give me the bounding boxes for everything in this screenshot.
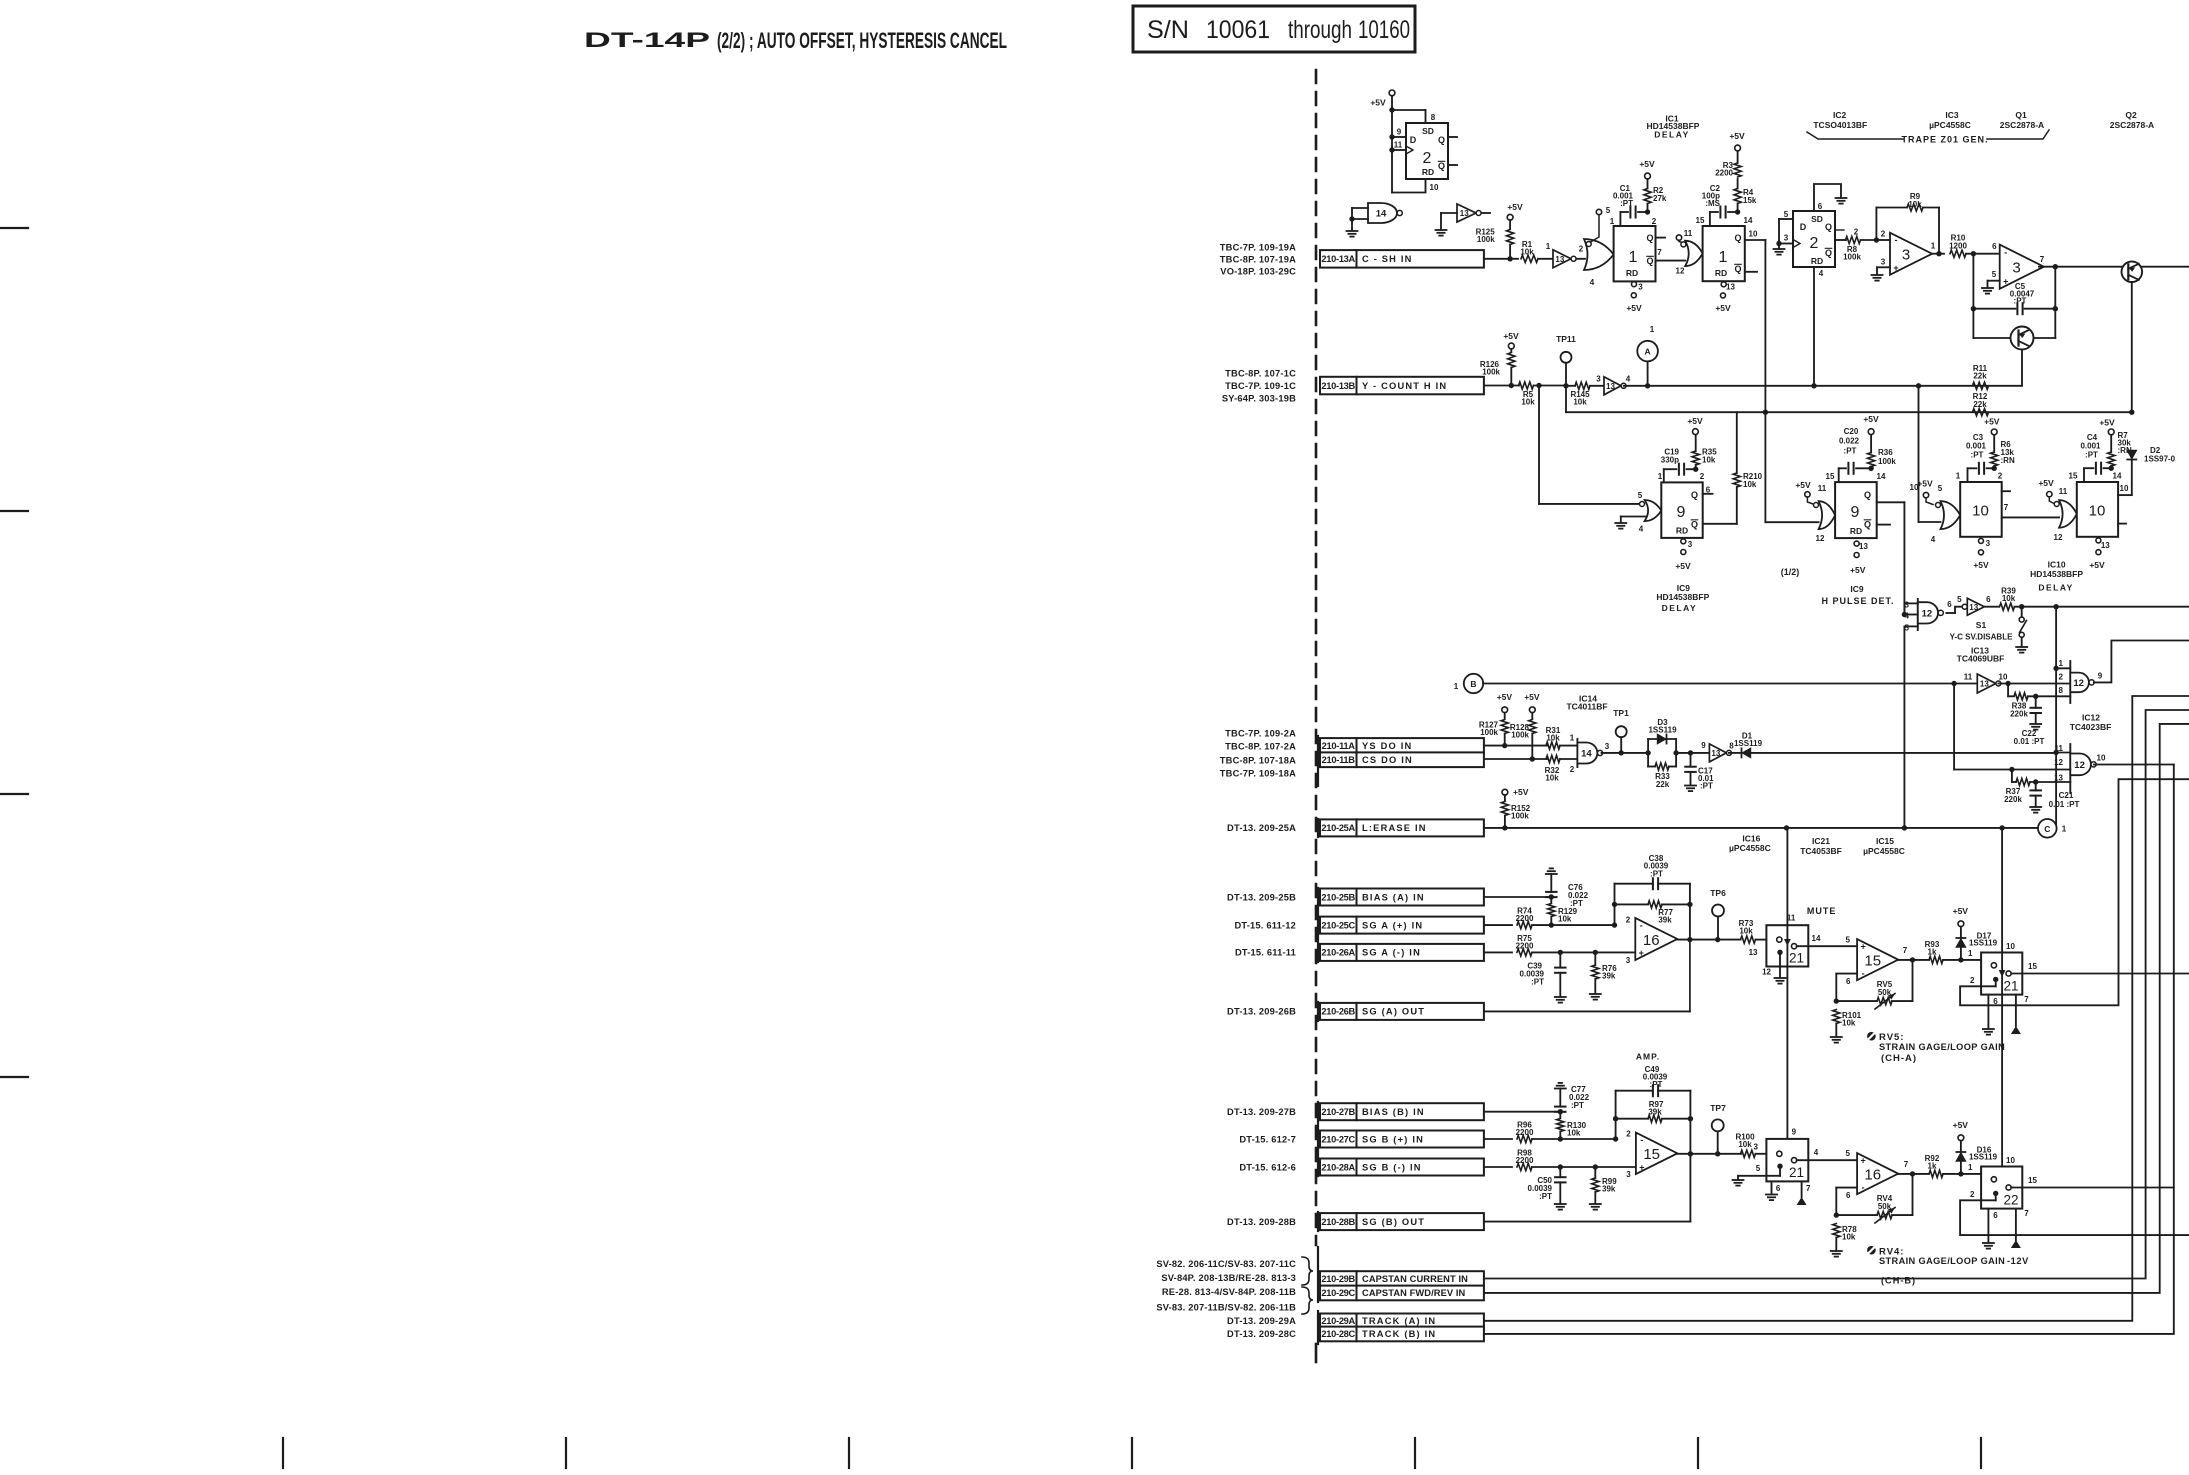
left margin tick 1 (0, 227, 28, 229)
pin 4 label or gate IC1a (1590, 278, 1595, 287)
svg-text:7: 7 (2040, 255, 2045, 264)
inverter IC13a (1946, 595, 1999, 615)
svg-text:DT-15. 611-12: DT-15. 611-12 (1234, 920, 1296, 930)
monostable IC9b box 9 (1835, 482, 1877, 538)
connector 210-29A TRACK (A) IN (1320, 1314, 1484, 1329)
svg-text:C20: C20 (1844, 427, 1859, 436)
resistor R100 10k (1735, 1132, 1766, 1157)
capacitor C1 0.001 (1613, 184, 1650, 226)
svg-text:+5V: +5V (1687, 416, 1703, 426)
svg-text:SV-84P. 208-13B/RE-28. 813-3: SV-84P. 208-13B/RE-28. 813-3 (1161, 1273, 1296, 1283)
screw RV4 annotation (1867, 1246, 2005, 1285)
ground or gate IC9a (1615, 517, 1646, 529)
nand gate IC14 (1570, 733, 1603, 774)
resistor R97 39k feedback (1616, 1100, 1691, 1122)
svg-text:4: 4 (1931, 535, 1936, 544)
pin 7 wire IC10a to or gate IC10b (2002, 503, 2059, 518)
svg-text:39k: 39k (1602, 1184, 1616, 1193)
switch S1 Y-C SV.DISABLE (1950, 607, 2028, 653)
svg-text:2: 2 (1881, 229, 1886, 238)
left label SV-84P 208-13B/RE-28 813-3 (1161, 1273, 1296, 1283)
svg-text:TP6: TP6 (1710, 888, 1726, 898)
svg-text:0.022: 0.022 (1839, 437, 1860, 446)
svg-text:6: 6 (1993, 997, 1998, 1006)
svg-text:12: 12 (1816, 534, 1825, 543)
bottom margin tick 6 (1697, 1438, 1699, 1468)
svg-text::RN: :RN (2001, 456, 2015, 465)
resistor R125 100k (1476, 227, 1514, 258)
svg-text:0.001: 0.001 (1966, 442, 1987, 451)
resistor R130 10k (1557, 1112, 1587, 1142)
svg-text:2: 2 (1970, 1190, 1975, 1199)
svg-text:DT-13. 209-26B: DT-13. 209-26B (1227, 1007, 1296, 1017)
svg-text:2: 2 (1626, 1129, 1631, 1138)
wire SG A OUT loop (1484, 940, 1690, 1012)
svg-text:210-25B: 210-25B (1321, 892, 1355, 902)
switch box 21 mute A (1766, 925, 1808, 966)
svg-text:15: 15 (1864, 953, 1881, 970)
svg-text:TRACK (A) IN: TRACK (A) IN (1362, 1316, 1436, 1326)
capacitor C39 0.0039 (1520, 952, 1566, 996)
svg-text::PT: :PT (1539, 1192, 1552, 1201)
svg-text:5: 5 (1938, 484, 1943, 493)
bottom margin tick 7 (1980, 1438, 1982, 1468)
svg-text:+5V: +5V (1370, 98, 1386, 108)
svg-text:1: 1 (1629, 249, 1638, 266)
svg-text:22: 22 (2003, 1192, 2018, 1207)
bottom margin tick 3 (848, 1438, 850, 1468)
svg-text:100k: 100k (1878, 457, 1896, 466)
svg-text:BIAS (B) IN: BIAS (B) IN (1362, 1107, 1425, 1117)
resistor R126 100k (1480, 353, 1515, 389)
connector 210-13A C - SH IN (1320, 250, 1484, 268)
svg-text:1: 1 (1610, 217, 1615, 226)
svg-text:H PULSE DET.: H PULSE DET. (1821, 596, 1894, 606)
svg-text:15: 15 (2069, 471, 2078, 480)
svg-text::PT: :PT (1700, 781, 1713, 790)
svg-text:13: 13 (1711, 749, 1720, 758)
+5V pin 11 or gate IC1b (1676, 229, 1692, 243)
svg-text:3: 3 (1626, 956, 1631, 965)
svg-text:10k: 10k (1521, 397, 1535, 406)
ground op-amp IC3a plus input (1872, 267, 1891, 280)
resistor R37 220k (2004, 770, 2070, 804)
resistor R4 15k (1734, 179, 1757, 212)
svg-text:Q: Q (1864, 520, 1871, 530)
label IC9 H PULSE DET (1821, 584, 1894, 606)
svg-text:3: 3 (1902, 247, 1910, 264)
ground R76 (1590, 994, 1601, 1000)
svg-text:1: 1 (1546, 242, 1551, 251)
svg-text:SD: SD (1811, 214, 1823, 224)
svg-text:+: + (1639, 1162, 1644, 1172)
+5V terminal R127 (1497, 692, 1513, 719)
wire CAPSTAN FWD/REV bus (1484, 724, 2189, 1293)
pin 13 terminals IC9a (1675, 539, 1692, 571)
svg-text:2200: 2200 (1715, 168, 1733, 177)
connector 210-13B Y - COUNT H IN (1320, 377, 1484, 395)
svg-text:Q: Q (1691, 490, 1698, 500)
board boundary dashed line (1315, 70, 1318, 1245)
svg-text:1: 1 (1570, 733, 1575, 742)
label MUTE (1807, 906, 1837, 916)
svg-text:14: 14 (1376, 209, 1387, 220)
wire IC13b out to nand IC12a pin2 (1998, 681, 2070, 686)
left label VO-18P 103-29C (1220, 266, 1296, 276)
svg-text:22k: 22k (1656, 780, 1670, 789)
svg-text:11: 11 (1684, 229, 1693, 238)
svg-text:39k: 39k (1602, 971, 1616, 980)
inverter IC13c (1701, 741, 1734, 762)
pin 10 wire IC10b Q (2118, 412, 2132, 495)
svg-text:1: 1 (1931, 242, 1936, 251)
svg-text:Q1: Q1 (2015, 110, 2027, 120)
svg-text:TP11: TP11 (1556, 334, 1576, 344)
svg-text:+5V: +5V (1953, 906, 1969, 916)
ground IC2b pin3 (1774, 249, 1785, 255)
svg-text:210-29C: 210-29C (1321, 1288, 1355, 1298)
wire CAPSTAN CURRENT bus (1484, 710, 2189, 1279)
svg-text:13: 13 (1749, 948, 1758, 957)
svg-text:11: 11 (1818, 484, 1827, 493)
title DT-14P (584, 29, 710, 52)
label IC10 HD14538BFP DELAY (2030, 560, 2083, 593)
svg-text:+5V: +5V (1729, 131, 1745, 141)
svg-text:12: 12 (1762, 967, 1771, 976)
svg-text::MS: :MS (1705, 199, 1720, 208)
wire nand IC12a output (2094, 641, 2189, 683)
svg-text:210-25A: 210-25A (1321, 823, 1355, 833)
svg-text:10k: 10k (1702, 455, 1716, 464)
svg-text:1SS119: 1SS119 (1969, 938, 1998, 947)
ground C21 (2030, 807, 2041, 813)
svg-text::PT: :PT (1650, 1080, 1663, 1089)
capacitor C2 100p (1702, 184, 1741, 226)
svg-text:2SC2878-A: 2SC2878-A (2110, 120, 2154, 130)
+5V pin 5 or gate IC10a (1917, 479, 1933, 505)
svg-text:SG B (-) IN: SG B (-) IN (1362, 1162, 1422, 1172)
resistor R38 220k (2008, 684, 2070, 719)
svg-text:DT-15. 611-11: DT-15. 611-11 (1235, 948, 1296, 958)
svg-text:10: 10 (2006, 1156, 2015, 1165)
svg-text:1: 1 (1968, 949, 1973, 958)
vertical net R39 to C line (2053, 607, 2058, 828)
svg-text:15: 15 (1643, 1146, 1660, 1163)
svg-text:1SS119: 1SS119 (1969, 1152, 1998, 1161)
svg-text:(CH-B): (CH-B) (1881, 1275, 1916, 1285)
resistor R128 100k (1510, 720, 1536, 762)
wire 13B to R5 (1484, 385, 1519, 387)
svg-text:10k: 10k (1743, 480, 1757, 489)
svg-text:TP7: TP7 (1710, 1103, 1726, 1113)
wire R11 rail (1624, 383, 2022, 388)
wire R11 rail branch to or gate IC10a (1919, 386, 1941, 522)
left label DT-13 209-25B (1227, 892, 1296, 902)
svg-text:+5V: +5V (1524, 692, 1540, 702)
svg-text:1k: 1k (1928, 947, 1937, 956)
svg-text:10: 10 (1999, 672, 2008, 681)
pin labels box 21 mute B (1754, 1128, 1819, 1193)
inverter 13 spare (1441, 204, 1490, 229)
flip-flop IC2a box 2 (1406, 123, 1448, 179)
wire SG B OUT loop (1484, 1154, 1691, 1222)
svg-text:7: 7 (1657, 248, 1662, 257)
svg-text:10k: 10k (1546, 733, 1560, 742)
svg-text:9: 9 (1792, 1128, 1797, 1137)
ground C39 (1555, 997, 1566, 1003)
wire box21A to op-amp IC15a (1797, 945, 1857, 947)
transistor Q1 (1973, 309, 2055, 386)
label AMP (1636, 1052, 1660, 1062)
brace upper (1302, 1257, 1313, 1285)
left label DT-13 209-28B (1227, 1217, 1296, 1227)
pin 7 -12V box 21 B (1797, 1181, 1807, 1205)
switch box 21 mute B (1766, 1139, 1808, 1182)
svg-text:10k: 10k (1739, 926, 1753, 935)
title subtitle (717, 28, 1007, 53)
label Q2 2SC2878-A (2110, 110, 2154, 130)
svg-text:210-25C: 210-25C (1321, 920, 1355, 930)
svg-text:1: 1 (1968, 1163, 1973, 1172)
bottom margin tick 5 (1414, 1438, 1416, 1468)
svg-text:+: + (1639, 948, 1644, 958)
svg-text:220k: 220k (2010, 709, 2028, 718)
svg-text:2200: 2200 (1516, 1128, 1534, 1137)
connector 210-28B SG (B) OUT (1320, 1213, 1484, 1230)
svg-text:Q: Q (1734, 264, 1741, 274)
op-amp IC16a (1626, 916, 1678, 965)
svg-text:-: - (2004, 247, 2007, 257)
svg-text:STRAIN GAGE/LOOP GAIN: STRAIN GAGE/LOOP GAIN (1879, 1042, 2005, 1052)
svg-text:D: D (1410, 135, 1417, 145)
svg-text:11: 11 (2059, 487, 2068, 496)
svg-text:RD: RD (1626, 268, 1638, 278)
svg-text:RD: RD (1850, 526, 1862, 536)
svg-text:C - SH IN: C - SH IN (1362, 254, 1413, 264)
wire C-SH to R1 (1484, 256, 1518, 261)
wire IC2b pins 5 3 (1776, 210, 1793, 248)
svg-text:16: 16 (1643, 932, 1660, 949)
svg-text:DT-15. 612-6: DT-15. 612-6 (1239, 1162, 1296, 1172)
svg-text:12: 12 (2054, 758, 2063, 767)
svg-text:210-27C: 210-27C (1321, 1134, 1355, 1144)
svg-text:6: 6 (1776, 1184, 1781, 1193)
pin 6 ground box 21 second A (1983, 995, 1998, 1035)
svg-text:DT-13. 209-25A: DT-13. 209-25A (1227, 823, 1296, 833)
svg-text:9: 9 (1677, 504, 1686, 521)
svg-text:STRAIN GAGE/LOOP GAIN: STRAIN GAGE/LOOP GAIN (1879, 1256, 2005, 1266)
svg-text:13: 13 (1980, 680, 1989, 689)
resistor R77 39k feedback (1615, 901, 1690, 925)
svg-text:3: 3 (1754, 1143, 1759, 1152)
svg-text:-: - (1640, 1135, 1643, 1145)
svg-text:A: A (1645, 347, 1651, 357)
switch contacts box 21 mute A (1777, 937, 1797, 977)
svg-text:3: 3 (2012, 260, 2020, 277)
left label TBC-8P 107-2A (1225, 741, 1296, 751)
wire R39 line to right edge (2056, 606, 2189, 608)
svg-text:Y - COUNT H IN: Y - COUNT H IN (1362, 381, 1447, 391)
svg-text:TBC-7P. 109-2A: TBC-7P. 109-2A (1225, 728, 1296, 738)
svg-text:210-27B: 210-27B (1321, 1107, 1355, 1117)
wire R10 to op-amp IC3b (1973, 242, 1999, 254)
wire branch to or gate IC9a (1539, 386, 1641, 504)
test point TP6 (1710, 888, 1726, 940)
svg-text:10: 10 (1972, 502, 1989, 519)
svg-text:+5V: +5V (1675, 561, 1691, 571)
resistor R12 22k (1973, 392, 1989, 416)
svg-text:CAPSTAN FWD/REV IN: CAPSTAN FWD/REV IN (1362, 1288, 1466, 1298)
inverter 13 C-SH (1546, 242, 1585, 268)
+5V pin 11 or gate IC10b (2038, 478, 2054, 503)
connector 210-26B SG (A) OUT (1320, 1003, 1484, 1020)
or gate IC1b input (1681, 241, 1703, 266)
capacitor C5 0.0047 loop (1971, 254, 2058, 315)
svg-text:2: 2 (1570, 765, 1575, 774)
svg-text:210-28B: 210-28B (1321, 1217, 1355, 1227)
svg-text:10k: 10k (1520, 247, 1534, 256)
svg-text:6: 6 (1992, 242, 1997, 251)
left label TBC-7P 109-2A (1225, 728, 1296, 738)
svg-text:TCSO4013BF: TCSO4013BF (1813, 120, 1867, 130)
ground R101 (1831, 1037, 1842, 1043)
svg-text:1SS119: 1SS119 (1648, 725, 1677, 734)
svg-text:C3: C3 (1973, 433, 1984, 442)
svg-text:210-26A: 210-26A (1321, 948, 1355, 958)
flip-flop IC2b box 2 (1793, 211, 1835, 267)
wire SG A plus line (1484, 924, 1512, 926)
wire TRACK B bus (1484, 765, 2174, 1334)
wire op-amp IC15a output (1898, 957, 1929, 962)
wire IC10b Qbar stub (2118, 523, 2126, 525)
wire R8 to op-amp IC3a (1876, 239, 1890, 241)
bottom margin tick 1 (282, 1438, 284, 1468)
svg-text:100k: 100k (1511, 811, 1529, 820)
resistor R73 10k (1739, 919, 1767, 943)
svg-text:CS DO IN: CS DO IN (1362, 755, 1413, 765)
+5V terminal R35 (1687, 416, 1703, 434)
ground pin 5 box 21 B (1733, 1180, 1744, 1186)
svg-text:1: 1 (1658, 472, 1663, 481)
svg-text:210-26B: 210-26B (1321, 1007, 1355, 1017)
svg-text:10: 10 (1749, 230, 1758, 239)
svg-text::PT: :PT (1531, 977, 1544, 986)
svg-text:2: 2 (1579, 244, 1584, 253)
label TRAPE Z01 GEN bracket (1807, 130, 2049, 145)
svg-text:B: B (1470, 679, 1476, 689)
svg-text:14: 14 (2113, 471, 2122, 480)
wire IC10a Q stub (2002, 490, 2010, 492)
pin 8 label FF2a (1431, 113, 1436, 122)
+5V terminal R36 (1863, 414, 1879, 434)
svg-text:DELAY: DELAY (1654, 130, 1690, 140)
nand gate 14 spare (1349, 203, 1402, 230)
svg-text:RD: RD (1811, 256, 1823, 266)
svg-text:SG (A) OUT: SG (A) OUT (1362, 1007, 1425, 1017)
svg-text:DT-13. 209-29A: DT-13. 209-29A (1227, 1316, 1296, 1326)
wire pin15 box 21 second A to right (2011, 973, 2189, 975)
diode D3 1SS119 (1648, 718, 1677, 767)
svg-text:Q: Q (1825, 222, 1832, 232)
svg-text:Q: Q (1734, 233, 1741, 243)
left label SY-64P 303-19B (1222, 393, 1296, 403)
left label DT-13 209-25A (1227, 823, 1296, 833)
svg-text:2200: 2200 (1516, 941, 1534, 950)
svg-text:(2/2) ; AUTO OFFSET, HYSTERESI: (2/2) ; AUTO OFFSET, HYSTERESIS CANCEL (717, 28, 1007, 53)
svg-text:through: through (1288, 16, 1352, 44)
left margin tick 4 (0, 1076, 28, 1078)
svg-text:1: 1 (1454, 682, 1459, 691)
svg-text:+5V: +5V (1973, 560, 1989, 570)
svg-text:5: 5 (1756, 1164, 1761, 1173)
wire D3 to inverter (1676, 750, 1709, 755)
svg-text:SG A (-) IN: SG A (-) IN (1362, 948, 1421, 958)
svg-text:1: 1 (2062, 825, 2067, 834)
left label DT-13 209-29A (1227, 1316, 1296, 1326)
svg-text:10k: 10k (1738, 1140, 1752, 1149)
svg-text:210-13A: 210-13A (1321, 254, 1355, 264)
svg-text:6: 6 (1947, 600, 1952, 609)
svg-text:HD14538BFP: HD14538BFP (1656, 592, 1709, 602)
ground for nand 14 (1347, 231, 1358, 237)
svg-text:13: 13 (2101, 541, 2110, 550)
svg-text:DELAY: DELAY (2038, 583, 2074, 593)
svg-text:14: 14 (1877, 472, 1886, 481)
switch contacts box 21 second A (1981, 963, 2011, 987)
label IC15 uPC4558C (1863, 836, 1905, 856)
svg-text:330p: 330p (1661, 455, 1679, 464)
svg-text:220k: 220k (2004, 795, 2022, 804)
label IC3 uPC4558C (1929, 110, 1971, 130)
svg-text:14: 14 (1744, 216, 1753, 225)
ground R78 (1831, 1251, 1842, 1257)
bottom margin tick 4 (1131, 1438, 1133, 1468)
resistor R35 10k (1692, 435, 1717, 470)
monostable IC10b box 10 (2077, 482, 2118, 537)
svg-text:+: + (1860, 941, 1865, 951)
+5V terminal R7 (2099, 418, 2115, 435)
capacitor C38 0.0039 feedback (1612, 854, 1693, 940)
svg-text:C4: C4 (2087, 433, 2098, 442)
wire SG A minus line (1484, 951, 1512, 953)
svg-text:15: 15 (1826, 472, 1835, 481)
wire pin15 box 22 to bus (2011, 1187, 2174, 1189)
svg-text:-12V: -12V (2007, 1256, 2029, 1266)
svg-text:4: 4 (1626, 374, 1631, 383)
resistor R98 2200 (1516, 1148, 1636, 1170)
svg-text:100k: 100k (1511, 730, 1529, 739)
svg-text:12: 12 (2073, 678, 2084, 689)
wire C line (1484, 825, 2038, 830)
svg-text:AMP.: AMP. (1636, 1052, 1660, 1062)
or gate IC9a input (1638, 491, 1662, 534)
pin 11 label FF2a (1394, 140, 1403, 149)
svg-text:8: 8 (1431, 113, 1436, 122)
wire IC14 output (1602, 742, 1651, 756)
capacitor C21 0.01 (2030, 782, 2079, 809)
left label DT-15 611-12 (1234, 920, 1296, 930)
pin 7 wire IC1a Qbar to or gate (1656, 248, 1686, 276)
transistor Q2 (2122, 262, 2189, 413)
svg-text:50k: 50k (1878, 1202, 1892, 1211)
svg-text:2: 2 (2059, 672, 2064, 681)
svg-text:210-29A: 210-29A (1321, 1316, 1355, 1326)
svg-text:+5V: +5V (2099, 418, 2115, 428)
svg-text:+5V: +5V (1626, 303, 1642, 313)
svg-text:5: 5 (1846, 935, 1851, 944)
svg-text:210-11B: 210-11B (1322, 755, 1356, 765)
svg-text::PT: :PT (1844, 446, 1857, 455)
